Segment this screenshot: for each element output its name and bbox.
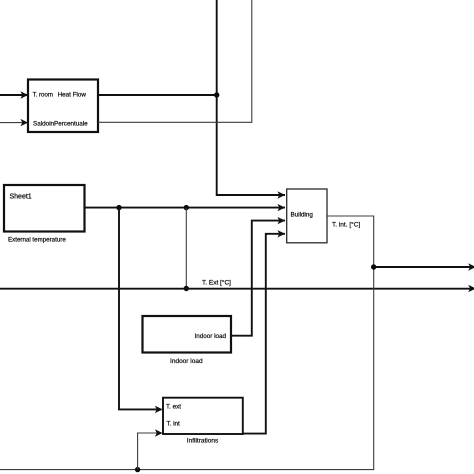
node junction at (137.6,469.6) [135,467,140,472]
wire Building output T.int [0,216,374,470]
svg-text:T. ext: T. ext [166,404,181,411]
wire branch down to Infiltrations port 1 [119,208,162,410]
node junction at (216.7,95) [214,92,219,97]
svg-text:Heat Flow: Heat Flow [58,92,87,99]
svg-text:Infiltrations: Infiltrations [187,438,219,445]
wire Sheet1 output to Building port 2 [85,207,286,209]
wire second output thin up to top edge [98,0,252,122]
node junction at (119,207.6) [116,205,121,210]
wire Indoor load output to Building port 3 [231,221,285,336]
svg-text:Building: Building [290,212,313,219]
node junction at (186.3,207.6) [184,205,189,210]
wire T.Ext long horizontal line to right edge [0,288,474,290]
wire bold to right edge at y=267 [374,266,474,268]
svg-text:SaldoinPercentuale: SaldoinPercentuale [33,120,88,127]
svg-text:T. int: T. int [167,420,181,427]
wire input T.room from left edge [0,94,27,96]
node junction at (373.7,267) [371,264,376,269]
subsystem block Building [287,189,327,243]
svg-text:Indoor load: Indoor load [170,358,203,365]
svg-text:Indoor load: Indoor load [194,333,226,340]
wire thin branch down to T.Ext line [185,208,187,289]
svg-text:Sheet1: Sheet1 [10,194,32,201]
wire vertical from top edge down to Building port 1 [217,0,285,195]
subsystem block HeatFlow (T. room / SaldoinPercentuale -> Heat Flow) [28,80,98,133]
wire Infiltrations output to Building port 4 [243,234,285,434]
svg-text:External temperature: External temperature [8,236,66,243]
svg-text:T. int. [°C]: T. int. [°C] [332,220,360,228]
source block Sheet1 (External temperature) [4,185,85,232]
wire Heat Flow output to vertical bus x=216.7 [98,94,217,96]
node junction at (186.3,288.5) [184,286,189,291]
svg-text:T. Ext [°C]: T. Ext [°C] [202,279,231,287]
subsystem block Indoor load [143,316,232,353]
svg-text:T. room: T. room [33,92,53,99]
wire input SaldoinPercentuale from left edge [0,122,27,124]
subsystem block Infiltrations [163,398,243,434]
wire T.int feedback up to Infiltrations port 2 [138,433,162,470]
